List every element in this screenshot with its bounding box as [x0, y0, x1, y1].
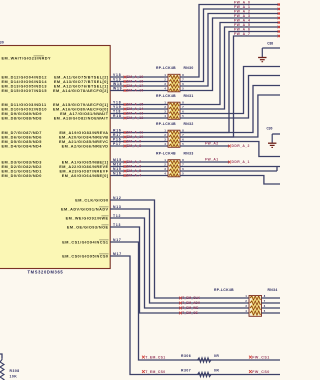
no-ERC cross + net label EM_A_15	[124, 103, 144, 107]
wire stub row G4.1 to resistor pack	[110, 161, 168, 163]
svg-text:EM_A21/GIO85/NREVC: EM_A21/GIO85/NREVC	[59, 140, 108, 144]
wire EM_A_8 dangle (pack3.4)	[180, 145, 230, 147]
capacitor designator C30	[267, 127, 273, 131]
resistor pack RN31 label	[156, 94, 194, 98]
svg-text:EM_D15/GIO07/ND15: EM_D15/GIO07/ND15	[2, 89, 47, 93]
pin name EM_OE/GIO93/NOE	[67, 225, 109, 229]
pin names row G2.4	[2, 116, 109, 120]
wire EM_A_4 branch (pack4.4 to right edge)	[180, 176, 280, 185]
wire stub row G4.2 to resistor pack	[110, 166, 168, 168]
resistor network RN32	[164, 129, 184, 148]
svg-text:EM_D4/GIO84/ND4: EM_D4/GIO84/ND4	[2, 144, 43, 148]
svg-text:EM_A17/GIO81/NWAIT: EM_A17/GIO81/NWAIT	[60, 112, 109, 116]
pin names row G4.2	[2, 165, 109, 169]
wire stub row G3.1 to resistor pack	[110, 132, 168, 134]
svg-text:RN32: RN32	[184, 122, 194, 126]
wire T_EM bus 2 (pin to RN34)	[110, 209, 249, 303]
svg-text:EM_A_12: EM_A_12	[127, 116, 144, 120]
svg-text:FW_A_2: FW_A_2	[234, 10, 250, 14]
wire stub row G1.3 to resistor pack	[110, 85, 168, 87]
svg-text:T_EM_CLK: T_EM_CLK	[182, 296, 200, 300]
pin number R18	[113, 114, 122, 118]
svg-text:EM_D2/GIO82/ND2: EM_D2/GIO82/ND2	[2, 165, 42, 169]
no-ERC cross at right edge FW_A_2	[278, 12, 281, 15]
resistor R306	[196, 358, 211, 362]
no-ERC cross + net label T_EM_CS0	[142, 370, 166, 374]
svg-text:C30: C30	[267, 127, 273, 131]
svg-text:EM_D3/GIO83/ND3: EM_D3/GIO83/ND3	[2, 160, 42, 164]
svg-text:RP-LCK4B: RP-LCK4B	[156, 66, 176, 70]
wire stub row G1.4 to resistor pack	[110, 90, 168, 92]
svg-text:EM_WE/GIO92/NWE: EM_WE/GIO92/NWE	[66, 216, 109, 220]
no-ERC cross + net label EM_A_18	[124, 80, 144, 84]
svg-text:T_EM_CS1: T_EM_CS1	[145, 355, 165, 359]
pin names row G1.1	[2, 75, 109, 79]
svg-text:EM_D13/GIO05/ND13: EM_D13/GIO05/ND13	[2, 84, 47, 88]
pin name EM_WE/GIO92/NWE	[66, 216, 109, 220]
pin name EM_ADV/GIO91/NADV	[61, 207, 109, 211]
ground GND2	[268, 134, 276, 147]
pin number N17	[113, 238, 122, 242]
svg-text:EM_A_10: EM_A_10	[127, 135, 144, 139]
svg-text:EM_A12/GIO76/BTSEL[1]: EM_A12/GIO76/BTSEL[1]	[54, 84, 109, 88]
svg-text:EM_A_14: EM_A_14	[127, 107, 144, 111]
pin number N12	[113, 196, 122, 200]
resistor network RN33	[164, 158, 184, 177]
wire stub row G3.3 to resistor pack	[110, 141, 168, 143]
svg-text:EM_OE/GIO93/NOE: EM_OE/GIO93/NOE	[67, 225, 109, 229]
net label FW_A_5	[234, 23, 250, 27]
svg-text:EM_A15/GIO79/AECFG[1]: EM_A15/GIO79/AECFG[1]	[53, 103, 109, 107]
pin number T12	[113, 214, 121, 218]
svg-text:R307: R307	[181, 368, 191, 372]
svg-text:0R: 0R	[214, 368, 219, 372]
wire stub joining pack4.3	[276, 167, 278, 172]
svg-text:RP-LCK4B: RP-LCK4B	[156, 94, 176, 98]
pin number R16	[113, 129, 122, 133]
pin names row G1.4	[2, 89, 109, 93]
wire EM_A_11 branch (pack3.1 to right edge)	[180, 86, 280, 133]
svg-text:EM_ADV/GIO91/NADV: EM_ADV/GIO91/NADV	[61, 207, 109, 211]
pin number W18	[113, 82, 122, 86]
pin names row G3.4	[2, 144, 109, 148]
no-ERC cross + net label T_EM_CS1	[142, 355, 166, 359]
net label FW_A1	[205, 157, 219, 161]
svg-text:EM_A_17: EM_A_17	[127, 84, 144, 88]
svg-text:EM_A_11: EM_A_11	[127, 131, 144, 135]
pin number M17	[113, 252, 122, 256]
resistor pack RN34 labels	[214, 288, 278, 292]
svg-text:RN33: RN33	[184, 151, 194, 155]
pin number N15	[113, 167, 122, 171]
pin number Y18	[113, 101, 121, 105]
svg-text:FW_CS0: FW_CS0	[252, 370, 270, 374]
svg-text:10K: 10K	[10, 375, 18, 379]
svg-text:R306: R306	[181, 354, 191, 358]
svg-text:EM_D14/GIO06/ND14: EM_D14/GIO06/ND14	[2, 80, 48, 84]
no-ERC cross + net label T_EM_CLK	[179, 296, 200, 300]
svg-text:RP-LCK4B: RP-LCK4B	[156, 151, 176, 155]
no-ERC cross + net label EM_A_5	[124, 169, 142, 173]
wire stub row G4.3 to resistor pack	[110, 170, 168, 172]
wire FW_A_3 (pack out to top right edge)	[180, 18, 280, 91]
pin names row G3.1	[2, 131, 109, 135]
pin number V19	[113, 78, 121, 82]
pin number N13	[113, 205, 122, 209]
wire pack5 output 2 to right edge	[262, 302, 281, 304]
svg-text:EM_D8/GIO88/ND8: EM_D8/GIO88/ND8	[2, 116, 42, 120]
no-ERC cross + net label EM_A_6	[124, 165, 142, 169]
pin number T18	[113, 110, 121, 114]
svg-text:EM_A11/GIO75/BTSEL[2]: EM_A11/GIO75/BTSEL[2]	[54, 75, 109, 79]
svg-text:RP-LCK4B: RP-LCK4B	[156, 122, 176, 126]
no-ERC cross + net label EM_A_9	[124, 140, 142, 144]
no-ERC cross at right edge FW_A_7	[278, 35, 281, 38]
wire T_EM bus 4 (pin to RN34)	[110, 227, 249, 313]
wire stub row G3.4 to resistor pack	[110, 145, 168, 147]
pin number P17	[113, 142, 121, 146]
svg-text:TMS320DM365: TMS320DM365	[28, 269, 64, 274]
no-ERC cross at right edge FW_A_6	[278, 30, 281, 33]
svg-text:EM_D6/GIO86/ND6: EM_D6/GIO86/ND6	[2, 135, 42, 139]
net label FW_A_1	[234, 5, 250, 9]
pin name EM_CS0/GIO95/NCS0	[62, 254, 108, 258]
svg-text:EM_A_16: EM_A_16	[127, 89, 144, 93]
svg-text:EM_D9/GIO89/ND9: EM_D9/GIO89/ND9	[2, 112, 42, 116]
svg-text:EM_A_4: EM_A_4	[127, 174, 142, 178]
svg-text:EM_D11/GIO03/ND11: EM_D11/GIO03/ND11	[2, 103, 47, 107]
wire to C38 / ground net	[262, 47, 280, 49]
wire stub row G2.1 to resistor pack	[110, 104, 168, 106]
svg-text:EM_A_19: EM_A_19	[127, 75, 144, 79]
no-ERC cross + net label EM_A_17	[124, 84, 144, 88]
svg-text:R308: R308	[10, 369, 20, 373]
wire EM_A_9 branch (pack3.3 to right edge)	[180, 142, 280, 157]
wire stub row G1.1 to resistor pack	[110, 76, 168, 78]
wire EM_A_13 branch (pack2.3 to right edge)	[180, 67, 280, 114]
svg-text:EM_CLK/GIO90: EM_CLK/GIO90	[75, 198, 108, 202]
svg-text:C38: C38	[267, 42, 273, 46]
svg-text:DDR_A_1: DDR_A_1	[232, 160, 250, 164]
svg-text:EM_D5/GIO85/ND5: EM_D5/GIO85/ND5	[2, 140, 42, 144]
wire to C30 / ground net 2	[272, 133, 280, 135]
no-ERC cross + net label DDR_A_2	[228, 144, 250, 148]
no-ERC cross + net label EM_A_7	[124, 160, 142, 164]
wire stub row G2.4 to resistor pack	[110, 117, 168, 119]
wire EM_CS0 to R307 net	[110, 256, 280, 375]
svg-text:EM_A1/GIO65/NBE[1]: EM_A1/GIO65/NBE[1]	[62, 160, 109, 164]
pin number Y19	[113, 105, 121, 109]
no-ERC cross + net label EM_A_4	[124, 174, 142, 178]
svg-text:FW_A_3: FW_A_3	[234, 14, 250, 18]
svg-text:EM_WAIT/GIO23/NRDY: EM_WAIT/GIO23/NRDY	[2, 56, 51, 60]
svg-text:RN30: RN30	[184, 66, 194, 70]
svg-text:EM_A_8: EM_A_8	[127, 144, 142, 148]
pin names row G1.2	[2, 80, 109, 84]
no-ERC cross + net label EM_A_14	[124, 107, 144, 111]
resistor network RN31	[164, 101, 184, 120]
svg-text:EM_D12/GIO04/ND12: EM_D12/GIO04/ND12	[2, 75, 47, 79]
no-ERC cross + net label FW_CS0	[249, 370, 270, 374]
wire pack5 output 1 to right edge	[262, 297, 281, 299]
pin number M16	[113, 163, 122, 167]
resistor R308 value	[10, 375, 18, 379]
op IC U30 body TMS320DM365	[0, 46, 110, 269]
resistor R308 designator	[10, 369, 20, 373]
wire T_EM bus 1 (pin to RN34)	[110, 200, 249, 298]
resistor R306 designator+value	[181, 354, 219, 358]
pin names row G4.4	[2, 174, 109, 178]
resistor R307	[196, 372, 211, 376]
svg-text:EM_A0/GIO64/NBE[0]: EM_A0/GIO64/NBE[0]	[62, 174, 109, 178]
svg-text:RP-LCK4B: RP-LCK4B	[214, 288, 234, 292]
svg-text:FW_A_1: FW_A_1	[234, 5, 250, 9]
svg-text:FW_A1: FW_A1	[205, 157, 219, 161]
wire EM_A_7 dangle (pack4.1)	[180, 161, 230, 163]
wire EM_A_10 branch (pack3.2 to right edge)	[180, 95, 280, 137]
svg-text:EM_A14/GIO78/AECFG[2]: EM_A14/GIO78/AECFG[2]	[53, 89, 109, 93]
wire stub row G3.2 to resistor pack	[110, 136, 168, 138]
no-ERC cross + net label EM_A_16	[124, 89, 144, 93]
svg-text:EM_A_15: EM_A_15	[127, 103, 144, 107]
pin names row G3.3	[2, 140, 109, 144]
pin number W19	[113, 87, 122, 91]
no-ERC cross at right edge FW_A_0	[278, 3, 281, 6]
wire pack5 output 4 to right edge	[262, 312, 281, 314]
pin names row G2.1	[2, 103, 109, 107]
no-ERC cross at right edge FW_A_5	[278, 26, 281, 29]
resistor R307 designator+value	[181, 368, 219, 372]
no-ERC cross at right edge FW_A_3	[278, 17, 281, 20]
svg-text:EM_A22/GIO86/NREVE: EM_A22/GIO86/NREVE	[59, 165, 108, 169]
svg-text:FW_A_0: FW_A_0	[234, 1, 250, 5]
pin names row G1.3	[2, 84, 109, 88]
svg-text:U30: U30	[0, 41, 4, 45]
wire to R308	[0, 354, 2, 358]
svg-text:T_EM_ADV: T_EM_ADV	[182, 301, 201, 305]
pin name EM_WAIT/GIO23/NRDY	[2, 56, 51, 60]
wire FW_A_1 (pack out to top right edge)	[180, 9, 280, 82]
pin number R17	[113, 133, 122, 137]
svg-text:EM_A_9: EM_A_9	[127, 140, 142, 144]
wire FW_A_5 (pack out to top right edge)	[180, 27, 280, 109]
svg-text:EM_A20/GIO84/NREVB: EM_A20/GIO84/NREVB	[59, 135, 108, 139]
pin names row G4.1	[2, 160, 109, 164]
no-ERC cross + net label EM_A_13	[124, 112, 144, 116]
pin number M15	[113, 158, 122, 162]
svg-text:EM_A13/GIO77/BTSEL[0]: EM_A13/GIO77/BTSEL[0]	[54, 80, 109, 84]
net label FW_A_7	[234, 32, 250, 36]
svg-text:RN34: RN34	[268, 288, 278, 292]
wire EM_A_5 branch (pack4.3)	[180, 170, 277, 172]
svg-text:DDR_A_2: DDR_A_2	[232, 144, 250, 148]
wire stub row G4.4 to resistor pack	[110, 175, 168, 177]
pin number P16	[113, 138, 121, 142]
svg-text:FW_A_7: FW_A_7	[234, 32, 250, 36]
pin number T13	[113, 223, 121, 227]
no-ERC cross + net label DDR_A_1	[228, 160, 250, 164]
no-ERC cross + net label EM_A_19	[124, 75, 144, 79]
svg-text:EM_D1/GIO81/ND1: EM_D1/GIO81/ND1	[2, 169, 42, 173]
svg-text:FW_A_6: FW_A_6	[234, 28, 250, 32]
svg-text:EM_A_13: EM_A_13	[127, 112, 144, 116]
no-ERC cross at right edge FW_A_1	[278, 8, 281, 11]
net label FW_A_0	[234, 1, 250, 5]
svg-text:T_EM_WE: T_EM_WE	[182, 306, 198, 310]
wire FW_A_2 (pack out to top right edge)	[180, 14, 280, 87]
wire stub row G2.3 to resistor pack	[110, 113, 168, 115]
pin names row G2.2	[2, 107, 109, 111]
pin name EM_CS1/GIO94/NCS1	[62, 240, 108, 244]
pin number N16	[113, 172, 122, 176]
svg-text:T_EM_CS0: T_EM_CS0	[145, 370, 165, 374]
svg-text:EM_A_6: EM_A_6	[127, 165, 142, 169]
svg-text:EM_A_7: EM_A_7	[127, 160, 142, 164]
no-ERC cross + net label EM_A_11	[124, 131, 144, 135]
net label FW_A_4	[234, 19, 250, 23]
ground GND1	[258, 48, 266, 62]
svg-text:EM_A19/GIO83/NREVA: EM_A19/GIO83/NREVA	[59, 131, 108, 135]
wire stub row G1.2 to resistor pack	[110, 81, 168, 83]
wire pack5 output 3 to right edge	[262, 307, 281, 309]
svg-text:EM_D0/GIO80/ND0: EM_D0/GIO80/ND0	[2, 174, 42, 178]
svg-text:EM_A16/GIO80/AECFG[0]: EM_A16/GIO80/AECFG[0]	[53, 107, 109, 111]
wire EM_A_6 branch (pack4.2 to right edge)	[180, 166, 280, 168]
svg-text:EM_A18/GIO82/NOEWAIT: EM_A18/GIO82/NOEWAIT	[54, 116, 109, 120]
svg-text:EM_A23/GIO87/NREVF: EM_A23/GIO87/NREVF	[59, 169, 108, 173]
svg-text:FW_A_5: FW_A_5	[234, 23, 250, 27]
svg-text:EM_A_5: EM_A_5	[127, 169, 142, 173]
IC U30 designator	[0, 41, 4, 45]
wire EM_A_12 branch (pack2.4 to right edge)	[180, 76, 280, 119]
capacitor designator C38	[267, 42, 273, 46]
resistor pack RN32 label	[156, 122, 194, 126]
svg-text:FW_CS1: FW_CS1	[252, 355, 270, 359]
svg-text:FW_A2: FW_A2	[205, 141, 219, 145]
net label FW_A_6	[234, 28, 250, 32]
no-ERC cross at right edge FW_A_4	[278, 21, 281, 24]
resistor network RN30	[164, 73, 184, 92]
resistor network RN34	[245, 294, 265, 316]
wire FW_A_7 (pack out to top right edge)	[180, 36, 280, 137]
wire FW_A_0 (pack out to top right edge)	[180, 5, 280, 78]
no-ERC cross + net label T_EM_ADV	[179, 301, 201, 305]
svg-text:EM_D10/GIO02/ND10: EM_D10/GIO02/ND10	[2, 107, 47, 111]
svg-text:EM_A2/GIO66/NREVD: EM_A2/GIO66/NREVD	[62, 144, 109, 148]
pin names row G2.3	[2, 112, 109, 116]
pin number V18	[113, 73, 121, 77]
no-ERC cross + net label EM_A_8	[124, 144, 142, 148]
svg-text:EM_D7/GIO87/ND7: EM_D7/GIO87/ND7	[2, 131, 42, 135]
net label FW_A_2	[234, 10, 250, 14]
pin names row G4.3	[2, 169, 109, 173]
no-ERC cross + net label EM_A_12	[124, 116, 144, 120]
wire stub row G2.2 to resistor pack	[110, 108, 168, 110]
svg-text:EM_CS0/GIO95/NCS0: EM_CS0/GIO95/NCS0	[62, 254, 108, 258]
resistor pack RN30 label	[156, 66, 194, 70]
svg-text:T_EM_OE: T_EM_OE	[182, 311, 198, 315]
resistor pack RN33 label	[156, 151, 194, 155]
svg-text:FW_A_4: FW_A_4	[234, 19, 250, 23]
no-ERC cross + net label FW_CS1	[249, 355, 270, 359]
IC part number TMS320DM365	[28, 269, 64, 274]
wire EM_CS1 to R306 net	[110, 242, 280, 360]
no-ERC cross + net label T_EM_WE	[179, 306, 198, 310]
pin name EM_CLK/GIO90	[75, 198, 108, 202]
svg-text:EM_CS1/GIO94/NCS1: EM_CS1/GIO94/NCS1	[62, 240, 108, 244]
svg-text:0R: 0R	[214, 354, 219, 358]
wire T_EM bus 3 (pin to RN34)	[110, 218, 249, 308]
no-ERC cross + net label T_EM_OE	[179, 311, 198, 315]
no-ERC cross + net label EM_A_10	[124, 135, 144, 139]
pin names row G3.2	[2, 135, 109, 139]
svg-text:EM_A_18: EM_A_18	[127, 80, 144, 84]
net label FW_A_3	[234, 14, 250, 18]
net label FW_A2	[205, 141, 219, 145]
wire FW_A_6 (pack out to top right edge)	[180, 32, 280, 133]
wire FW_A_4 (pack out to top right edge)	[180, 23, 280, 105]
resistor R308	[0, 358, 4, 380]
svg-text:RN31: RN31	[184, 94, 194, 98]
